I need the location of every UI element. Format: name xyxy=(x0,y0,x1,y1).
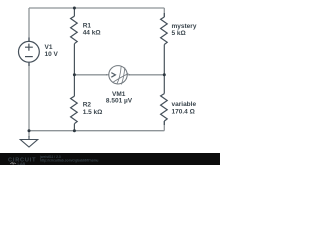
svg-text:R1: R1 xyxy=(83,23,92,30)
resistor mystery xyxy=(161,13,168,45)
svg-text:44 kΩ: 44 kΩ xyxy=(83,30,101,37)
voltage source V1 xyxy=(19,38,40,67)
resistor R1 xyxy=(71,16,78,44)
wire R2 branch upper xyxy=(73,75,75,96)
svg-text:variable: variable xyxy=(172,101,197,108)
svg-text:LAB: LAB xyxy=(18,162,26,165)
resistor R2 xyxy=(71,96,78,124)
node junction bottom R2 xyxy=(73,129,76,132)
voltmeter needle glyph xyxy=(113,66,128,85)
wire top horizontal xyxy=(29,7,164,9)
wire middle horizontal right of voltmeter xyxy=(129,74,164,76)
resistor variable xyxy=(161,94,168,125)
CircuitLab logo xyxy=(8,157,36,165)
node junction ground xyxy=(28,129,31,132)
voltmeter VM1 xyxy=(106,66,130,84)
wire bottom horizontal xyxy=(29,130,164,132)
node junction middle left xyxy=(73,73,76,76)
wire middle horizontal left of voltmeter xyxy=(74,74,107,76)
svg-text:8.501 µV: 8.501 µV xyxy=(106,98,133,105)
wire R1 branch lower xyxy=(73,44,75,75)
node junction top R1 xyxy=(73,7,76,10)
footer attribution bar xyxy=(0,153,220,165)
svg-text:5 kΩ: 5 kΩ xyxy=(172,30,186,37)
wire mystery branch upper xyxy=(163,8,165,17)
svg-text:http://circuitlab.com/c/gbab66: http://circuitlab.com/c/gbab66f7nsmu xyxy=(40,159,98,163)
svg-text:1.5 kΩ: 1.5 kΩ xyxy=(83,109,103,116)
wire R2 branch lower xyxy=(73,124,75,131)
svg-text:V1: V1 xyxy=(45,44,53,51)
wire variable branch lower xyxy=(163,121,165,131)
wire left vertical upper xyxy=(28,8,30,41)
node junction middle right xyxy=(163,73,166,76)
ground xyxy=(28,131,30,137)
svg-text:10 V: 10 V xyxy=(45,51,59,58)
svg-text:mystery: mystery xyxy=(172,23,197,30)
wire mystery branch lower xyxy=(163,45,165,75)
svg-text:R2: R2 xyxy=(83,102,92,109)
wire left vertical lower xyxy=(28,63,30,131)
voltmeter arrow glyph xyxy=(111,73,115,78)
wire R1 branch upper xyxy=(73,8,75,16)
wire variable branch upper xyxy=(163,75,165,94)
svg-text:170.4 Ω: 170.4 Ω xyxy=(172,109,195,116)
